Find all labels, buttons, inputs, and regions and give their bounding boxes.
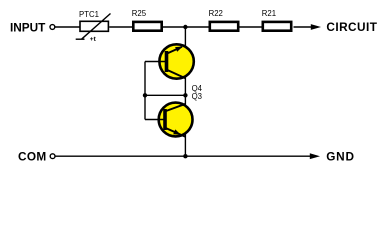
transistor Q4	[145, 44, 194, 78]
svg-text:Q3: Q3	[192, 92, 202, 101]
wire Q4 collector to mid node	[184, 75, 186, 95]
svg-text:GND: GND	[326, 150, 355, 164]
arrow to CIRCUIT	[311, 24, 321, 30]
wire mid node to Q3 collector	[184, 95, 186, 106]
terminal com (open circle)	[50, 154, 55, 159]
svg-text:R25: R25	[132, 9, 147, 18]
svg-text:R22: R22	[209, 9, 223, 18]
svg-text:CIRCUIT: CIRCUIT	[326, 20, 377, 34]
svg-text:INPUT: INPUT	[10, 21, 46, 35]
wire base bus vertical	[144, 62, 146, 120]
junction node bottom rail	[183, 154, 187, 158]
wire com rail	[55, 155, 311, 157]
transistor Q3	[145, 103, 193, 137]
terminal input (open circle)	[50, 25, 55, 30]
svg-text:PTC1: PTC1	[79, 10, 99, 19]
wire input terminal to PTC1	[55, 26, 80, 28]
arrow to GND	[310, 153, 320, 159]
wire R21 to circuit arrow	[294, 26, 313, 28]
wire mid node to bases	[145, 94, 185, 96]
svg-text:+t: +t	[90, 36, 97, 43]
wire R25 to R22 through node	[163, 26, 209, 28]
junction node top rail	[183, 25, 187, 29]
junction node on base wire	[143, 93, 147, 97]
svg-text:COM: COM	[18, 150, 47, 164]
mid junction node	[183, 93, 187, 97]
wire Q3 emitter to bottom rail	[184, 133, 186, 156]
thermistor PTC1	[76, 14, 111, 40]
wire node to Q4 emitter	[184, 27, 186, 48]
resistor R22	[210, 22, 238, 31]
svg-text:R21: R21	[262, 9, 276, 18]
resistor R25	[133, 22, 161, 31]
wire PTC1 to R25	[109, 26, 133, 28]
resistor R21	[263, 22, 291, 31]
wire R22 to R21	[240, 26, 263, 28]
